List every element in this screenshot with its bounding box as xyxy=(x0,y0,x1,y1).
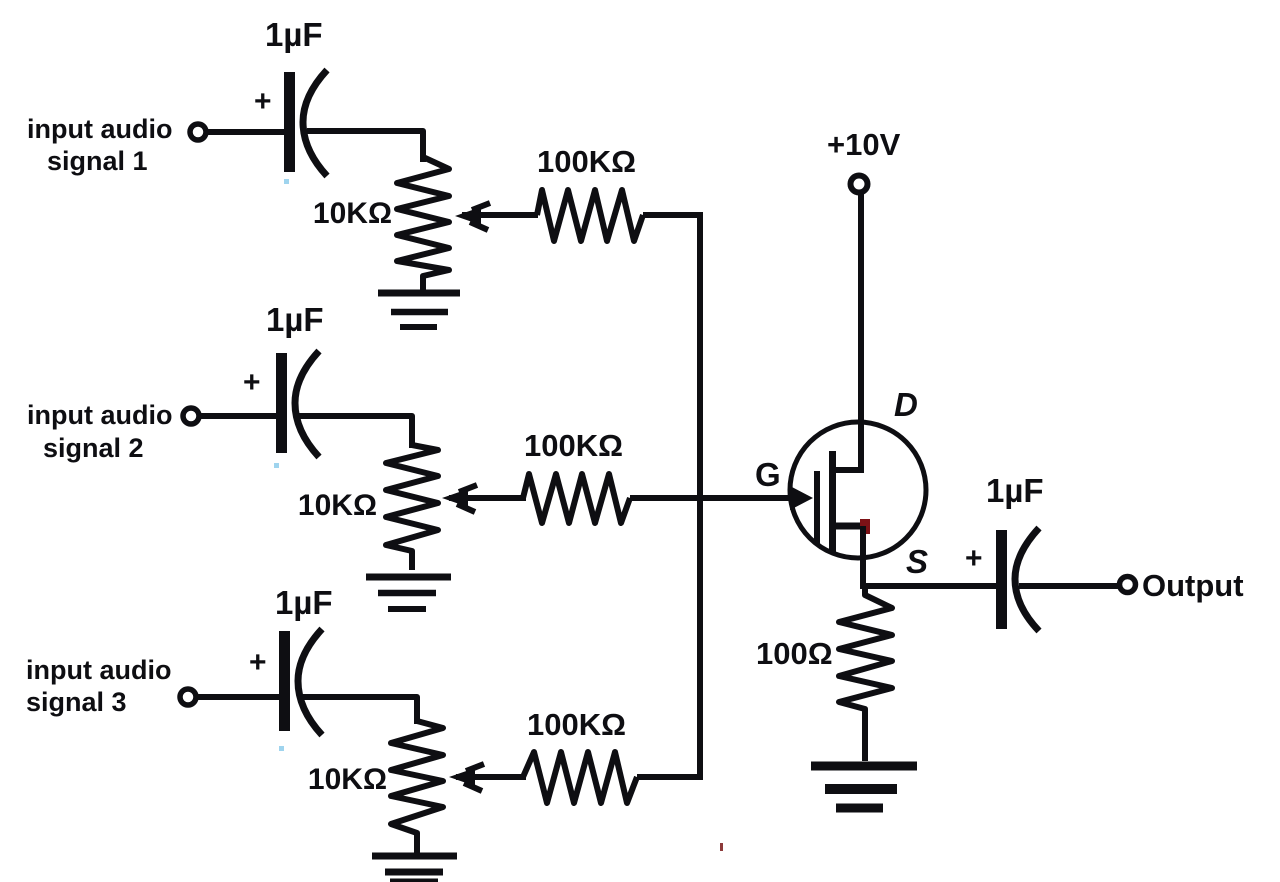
potentiometer R3 10K vertical xyxy=(391,721,443,853)
ground GND4 xyxy=(811,766,917,808)
resistor R4 100K channel 1 xyxy=(537,190,643,241)
wire C3 to R3 xyxy=(302,697,417,724)
svg-text:D: D xyxy=(894,386,918,423)
blue speck under C3 xyxy=(279,746,284,751)
wire C1 to R1 xyxy=(307,131,423,162)
label input audio signal 1 xyxy=(27,114,172,176)
svg-text:signal 1: signal 1 xyxy=(47,146,148,176)
wiper arrow R1 xyxy=(455,203,538,230)
red mark at source xyxy=(860,519,870,534)
wire +10V to drain xyxy=(858,193,864,470)
wire source node to output cap xyxy=(860,583,998,589)
transistor Q1 gate bar xyxy=(814,471,820,545)
svg-text:10KΩ: 10KΩ xyxy=(313,197,392,230)
svg-text:1µF: 1µF xyxy=(266,301,324,338)
potentiometer R1 10K vertical xyxy=(397,157,449,290)
svg-text:+: + xyxy=(965,542,983,575)
node +10V terminal xyxy=(851,176,868,193)
blue speck under C1 xyxy=(284,179,289,184)
transistor Q1 channel bar xyxy=(829,451,836,552)
transistor Q1 source lead xyxy=(833,523,866,530)
resistor R7 100 ohm xyxy=(839,586,892,761)
svg-text:input audio: input audio xyxy=(27,114,172,144)
blue speck under C2 xyxy=(274,463,279,468)
wire input2 to C2 xyxy=(200,413,278,419)
svg-text:100Ω: 100Ω xyxy=(756,636,833,671)
wire source down xyxy=(860,526,866,589)
wiper arrow R2 xyxy=(442,485,526,512)
svg-text:+10V: +10V xyxy=(827,127,901,162)
node input terminal 3 xyxy=(180,689,196,705)
svg-text:S: S xyxy=(906,543,928,580)
svg-text:10KΩ: 10KΩ xyxy=(298,489,377,522)
svg-text:100KΩ: 100KΩ xyxy=(527,707,626,742)
wire R4 to bus xyxy=(643,212,700,218)
ground GND2 xyxy=(366,577,451,609)
transistor Q1 drain lead xyxy=(833,467,864,473)
red speck artifact xyxy=(720,843,723,851)
node output terminal xyxy=(1120,577,1136,593)
wire R6 to bus xyxy=(637,774,700,780)
label input audio signal 3 xyxy=(26,655,171,717)
label input audio signal 2 xyxy=(27,400,172,463)
svg-text:G: G xyxy=(755,456,781,493)
capacitor C4 xyxy=(996,528,1039,631)
svg-text:+: + xyxy=(243,366,261,399)
ground GND1 xyxy=(378,293,460,327)
wire C4 to output terminal xyxy=(1019,583,1119,589)
wire input3 to C3 xyxy=(197,694,281,700)
wiper arrow R3 xyxy=(449,764,526,791)
svg-text:input audio: input audio xyxy=(26,655,171,685)
svg-text:input audio: input audio xyxy=(27,400,172,430)
transistor Q1 gate arrow xyxy=(790,486,813,510)
svg-text:signal 2: signal 2 xyxy=(43,433,144,463)
svg-text:+: + xyxy=(254,85,272,118)
capacitor C3 xyxy=(279,629,322,735)
resistor R6 100K channel 3 xyxy=(523,752,637,803)
wire summing bus xyxy=(697,212,703,780)
svg-text:1µF: 1µF xyxy=(275,584,333,621)
wire input1 to C1 xyxy=(207,129,286,135)
svg-text:100KΩ: 100KΩ xyxy=(537,144,636,179)
wire R5 to gate xyxy=(630,495,806,501)
svg-text:1µF: 1µF xyxy=(265,16,323,53)
svg-text:100KΩ: 100KΩ xyxy=(524,428,623,463)
node input terminal 2 xyxy=(183,408,199,424)
svg-text:Output: Output xyxy=(1142,568,1244,603)
svg-text:10KΩ: 10KΩ xyxy=(308,763,387,796)
resistor R5 100K channel 2 xyxy=(523,474,630,523)
node input terminal 1 xyxy=(190,124,206,140)
svg-text:signal 3: signal 3 xyxy=(26,687,127,717)
transistor Q1 body xyxy=(790,422,926,558)
svg-text:1µF: 1µF xyxy=(986,472,1044,509)
potentiometer R2 10K vertical xyxy=(386,445,438,570)
wire C2 to R2 xyxy=(299,416,412,448)
capacitor C2 xyxy=(276,351,319,457)
capacitor C1 xyxy=(284,70,327,176)
svg-text:+: + xyxy=(249,646,267,679)
ground GND3 xyxy=(372,856,457,881)
